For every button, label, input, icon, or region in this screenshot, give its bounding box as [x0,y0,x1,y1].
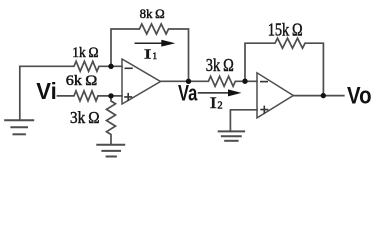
svg-text:I: I [144,46,152,61]
svg-text:I: I [210,95,217,112]
svg-text:Vo: Vo [347,82,372,109]
svg-text:3k Ω: 3k Ω [206,55,234,75]
svg-text:Va: Va [178,81,198,106]
svg-text:2: 2 [217,101,222,112]
svg-text:Vi: Vi [36,78,57,104]
svg-text:3k Ω: 3k Ω [70,108,100,127]
svg-text:1k Ω: 1k Ω [72,45,99,61]
svg-text:6k Ω: 6k Ω [66,73,98,89]
svg-text:1: 1 [152,52,157,62]
svg-text:15k Ω: 15k Ω [268,19,303,39]
svg-text:8k Ω: 8k Ω [140,7,165,21]
